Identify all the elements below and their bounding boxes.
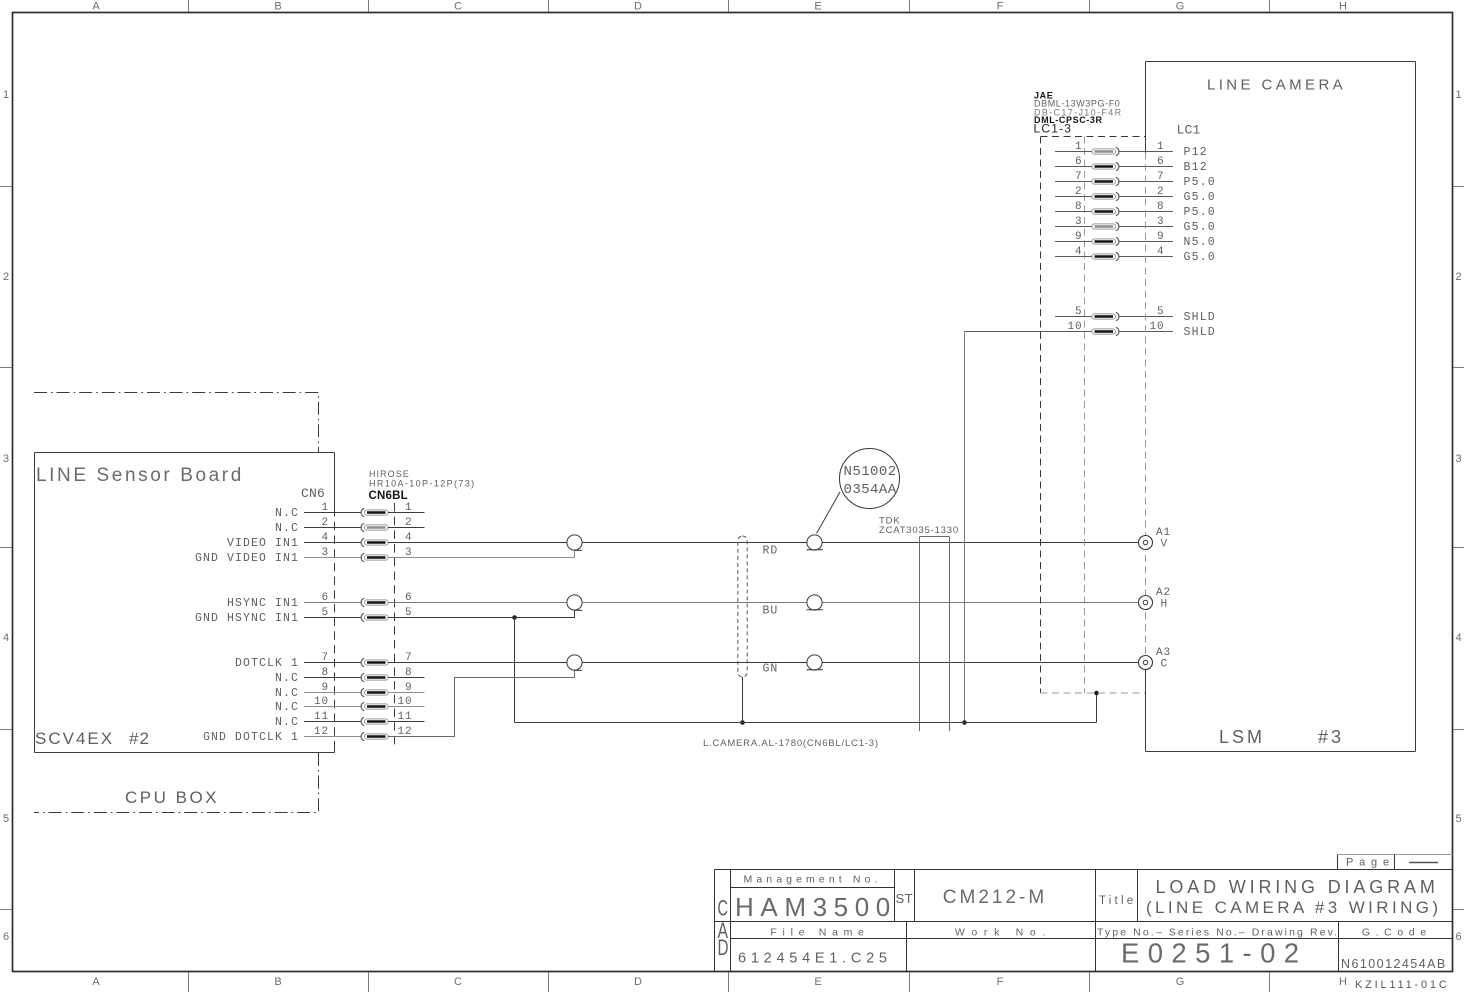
svg-text:G.Code: G.Code (1362, 927, 1432, 939)
svg-text:3: 3 (3, 453, 9, 465)
svg-text:N5.0: N5.0 (1184, 236, 1216, 249)
contact LC1 pin 9 (1092, 237, 1119, 245)
wire LC1 pin 9 stub (1055, 241, 1092, 243)
wire CN6 pin 1 (304, 512, 361, 514)
twist symbol GN right (807, 655, 823, 670)
balloon leader line (817, 492, 841, 534)
svg-text:12: 12 (314, 726, 329, 738)
svg-text:1: 1 (321, 502, 329, 514)
svg-text:2: 2 (1075, 186, 1083, 198)
svg-text:1: 1 (1075, 141, 1083, 153)
svg-text:H: H (1339, 976, 1347, 988)
wire shield common bus (515, 722, 1097, 724)
svg-text:L.CAMERA.AL-1780(CN6BL/LC1-3): L.CAMERA.AL-1780(CN6BL/LC1-3) (703, 738, 879, 749)
svg-text:Work No.: Work No. (955, 927, 1052, 939)
svg-text:C: C (454, 976, 462, 988)
svg-text:H: H (1339, 1, 1347, 13)
svg-text:612454E1.C25: 612454E1.C25 (738, 951, 892, 967)
svg-text:N610012454AB: N610012454AB (1341, 957, 1447, 971)
contact CN6BL pin 7 (361, 658, 388, 666)
svg-text:5: 5 (1075, 306, 1083, 318)
terminal A1 (1139, 536, 1153, 550)
svg-text:F: F (997, 1, 1004, 13)
contact LC1 pin 4 (1092, 252, 1119, 260)
svg-text:CM212-M: CM212-M (943, 887, 1047, 908)
page number dash (1409, 862, 1438, 864)
twist symbol RD left (567, 535, 582, 550)
wire LC1 pin 8 (1119, 211, 1173, 213)
wire LC1 pin 6 (1119, 166, 1173, 168)
terminal A3 (1139, 656, 1153, 670)
wire shield bus riser (left) (514, 618, 516, 723)
wire GN to terminal A3 (582, 662, 1138, 664)
svg-text:HIROSE: HIROSE (369, 469, 410, 479)
svg-text:LSM: LSM (1219, 727, 1265, 747)
wire pin 10 stub (388, 706, 425, 708)
svg-text:11: 11 (314, 711, 329, 723)
svg-text:P5.0: P5.0 (1184, 206, 1216, 219)
svg-text:A1: A1 (1156, 527, 1171, 539)
wire CN6 pin 10 (304, 706, 361, 708)
svg-text:VIDEO IN1: VIDEO IN1 (227, 537, 299, 550)
wire LC1 pin 5 (1119, 316, 1173, 318)
svg-text:10: 10 (314, 696, 329, 708)
svg-text:SHLD: SHLD (1184, 311, 1216, 324)
terminal A2 (1139, 596, 1153, 610)
twist symbol GN left (567, 655, 582, 670)
wire RD return pin 3 to twist circle (388, 550, 575, 557)
svg-text:G5.0: G5.0 (1184, 221, 1216, 234)
twist symbol BU right (807, 595, 823, 610)
svg-text:N.C: N.C (275, 716, 299, 729)
wire SHLD from riser to LC1 pin 10 (965, 331, 1093, 333)
wire LC1 pin 10 (1119, 331, 1173, 333)
svg-text:10: 10 (1067, 321, 1082, 333)
svg-text:N.C: N.C (275, 507, 299, 520)
svg-text:3: 3 (1075, 216, 1083, 228)
ferrite core ZCAT3035-1330 clamp (920, 537, 950, 732)
wire LC1 pin 8 stub (1055, 211, 1092, 213)
contact LC1 pin 10 (1092, 327, 1119, 335)
wire LC1 pin 5 stub (1055, 316, 1092, 318)
svg-text:H: H (1161, 599, 1169, 611)
svg-text:LINE Sensor Board: LINE Sensor Board (36, 465, 244, 486)
svg-text:N.C: N.C (275, 522, 299, 535)
wire CN6 pin 2 (304, 527, 361, 529)
svg-text:B: B (274, 976, 281, 988)
wire SHLD riser right (964, 332, 966, 723)
svg-text:BU: BU (763, 605, 779, 618)
svg-text:2: 2 (321, 517, 329, 529)
svg-text:4: 4 (3, 632, 9, 644)
svg-text:5: 5 (321, 607, 329, 619)
svg-text:A: A (92, 1, 100, 13)
svg-text:P5.0: P5.0 (1184, 176, 1216, 189)
junction dot SHLD riser (962, 720, 967, 725)
wire CN6 pin 11 (304, 721, 361, 723)
svg-text:N.C: N.C (275, 701, 299, 714)
svg-text:N51002: N51002 (844, 464, 897, 480)
svg-text:N.C: N.C (275, 672, 299, 685)
svg-text:8: 8 (321, 667, 329, 679)
wire CN6 pin 7 (304, 662, 361, 664)
svg-text:6: 6 (3, 931, 9, 943)
wire CN6 pin 5 (304, 617, 361, 619)
svg-text:GND VIDEO IN1: GND VIDEO IN1 (195, 552, 299, 565)
contact CN6BL pin 5 (361, 613, 388, 621)
connector LC1-3 shell dashed bottom (1041, 692, 1146, 694)
svg-text:C: C (454, 1, 462, 13)
junction dot connector shell (1094, 691, 1099, 696)
contact CN6BL pin 10 (361, 702, 388, 710)
svg-text:6: 6 (321, 592, 329, 604)
svg-text:G5.0: G5.0 (1184, 191, 1216, 204)
svg-text:D: D (634, 1, 642, 13)
CAD column label (718, 896, 729, 961)
wire GN signal from pin 7 to twist circle (388, 662, 567, 664)
svg-text:Title: Title (1099, 895, 1136, 907)
wire CN6 pin 4 (304, 542, 361, 544)
wire pin 1 stub (388, 512, 425, 514)
svg-text:E: E (814, 1, 821, 13)
wire shield drain (742, 677, 744, 723)
twist symbol BU left (567, 595, 582, 610)
wire LC1 pin 3 stub (1055, 226, 1092, 228)
wire pin 9 stub (388, 692, 425, 694)
svg-text:1: 1 (1455, 89, 1461, 101)
svg-text:A3: A3 (1156, 647, 1171, 659)
svg-text:HSYNC IN1: HSYNC IN1 (227, 597, 299, 610)
twist symbol RD right (807, 535, 823, 550)
contact LC1 pin 6 (1092, 162, 1119, 170)
svg-text:N.C: N.C (275, 687, 299, 700)
wire LC1 pin 6 stub (1055, 166, 1092, 168)
svg-text:LOAD WIRING DIAGRAM: LOAD WIRING DIAGRAM (1156, 877, 1439, 897)
svg-text:CN6BL: CN6BL (369, 490, 408, 502)
svg-text:D: D (634, 976, 642, 988)
wire RD signal from pin 4 to twist circle (388, 542, 567, 544)
svg-text:Management No.: Management No. (744, 874, 882, 886)
svg-text:6: 6 (1455, 931, 1461, 943)
svg-text:C: C (718, 896, 729, 921)
wire CN6 pin 9 (304, 692, 361, 694)
svg-text:(LINE CAMERA #3 WIRING): (LINE CAMERA #3 WIRING) (1146, 898, 1441, 917)
LINE CAMERA / LSM #3 box (1146, 62, 1416, 752)
junction dot GND HSYNC to shield bus (512, 615, 517, 620)
svg-text:ST: ST (896, 891, 914, 906)
svg-text:5: 5 (1455, 813, 1461, 825)
svg-text:A2: A2 (1156, 587, 1171, 599)
svg-text:SHLD: SHLD (1184, 326, 1216, 339)
wire LC1 pin 2 stub (1055, 196, 1092, 198)
wire BU to terminal A2 (582, 602, 1138, 604)
svg-text:8: 8 (1075, 201, 1083, 213)
contact CN6BL pin 1 (361, 508, 388, 516)
svg-text:2: 2 (3, 271, 9, 283)
CPU BOX enclosure dash-dot boundary (34, 393, 319, 813)
contact LC1 pin 2 (1092, 192, 1119, 200)
svg-text:CN6: CN6 (301, 486, 325, 501)
svg-text:4: 4 (1075, 246, 1083, 258)
wire LC1 pin 7 stub (1055, 181, 1092, 183)
svg-text:KZIL111-01C: KZIL111-01C (1355, 979, 1450, 991)
svg-text:G: G (1176, 976, 1185, 988)
connector LC1-3 mating dashed line (1084, 137, 1086, 694)
balloon N51002 0354AA (840, 449, 900, 509)
contact LC1 pin 7 (1092, 177, 1119, 185)
camera box edge dashed segment (1145, 153, 1147, 671)
svg-text:F: F (997, 976, 1004, 988)
svg-text:DOTCLK 1: DOTCLK 1 (235, 657, 299, 670)
wire LC1 pin 1 stub (1055, 151, 1092, 153)
svg-text:ZCAT3035-1330: ZCAT3035-1330 (879, 525, 959, 536)
svg-text:#3: #3 (1318, 727, 1344, 747)
svg-text:5: 5 (3, 813, 9, 825)
svg-text:7: 7 (321, 652, 329, 664)
contact CN6BL pin 4 (361, 538, 388, 546)
contact CN6BL pin 6 (361, 598, 388, 606)
contact LC1 pin 8 (1092, 207, 1119, 215)
svg-text:9: 9 (321, 682, 329, 694)
svg-text:2: 2 (1455, 271, 1461, 283)
svg-text:P12: P12 (1184, 146, 1208, 159)
svg-text:D: D (718, 935, 729, 960)
svg-text:B12: B12 (1184, 161, 1208, 174)
svg-text:B: B (274, 1, 281, 13)
contact LC1 pin 3 (1092, 222, 1119, 230)
wire shield to connector shell (1096, 693, 1098, 723)
svg-text:SCV4EX: SCV4EX (35, 729, 114, 748)
junction dot shield drain (740, 720, 745, 725)
wire BU signal from pin 6 to twist circle (388, 602, 567, 604)
contact CN6BL pin 11 (361, 717, 388, 725)
contact CN6BL pin 12 (361, 732, 388, 740)
svg-text:6: 6 (1075, 156, 1083, 168)
svg-text:0354AA: 0354AA (844, 482, 897, 498)
svg-text:Page: Page (1346, 857, 1395, 869)
svg-text:7: 7 (1075, 171, 1083, 183)
svg-text:GND HSYNC IN1: GND HSYNC IN1 (195, 612, 299, 625)
svg-text:LINE CAMERA: LINE CAMERA (1207, 77, 1346, 94)
svg-text:RD: RD (763, 545, 779, 558)
svg-text:HAM3500: HAM3500 (735, 892, 897, 922)
board edge dashed segment at CN6 (334, 508, 336, 744)
LINE Sensor Board box (35, 453, 335, 753)
contact LC1 pin 5 (1092, 312, 1119, 320)
wire pin 2 stub (388, 527, 425, 529)
wire LC1 pin 1 (1119, 151, 1173, 153)
svg-text:LC1-3: LC1-3 (1034, 122, 1073, 136)
title block grid (715, 870, 1453, 972)
wire CN6 pin 8 (304, 677, 361, 679)
connector CN6BL mating dashed line (394, 503, 396, 747)
svg-text:1: 1 (3, 89, 9, 101)
connector LC1-3 shell dashed box (1041, 137, 1146, 694)
wire CN6 pin 6 (304, 602, 361, 604)
contact CN6BL pin 9 (361, 688, 388, 696)
svg-text:C: C (1161, 659, 1169, 671)
wire LC1 pin 2 (1119, 196, 1173, 198)
wire pin 8 stub (388, 677, 425, 679)
svg-text:V: V (1161, 539, 1169, 551)
wire CN6 pin 12 (304, 736, 361, 738)
cable shield dashed stadium (738, 536, 747, 677)
svg-text:#2: #2 (129, 729, 150, 748)
svg-text:4: 4 (321, 532, 329, 544)
contact CN6BL pin 8 (361, 673, 388, 681)
svg-text:GN: GN (763, 663, 779, 676)
contact CN6BL pin 3 (361, 553, 388, 561)
svg-text:9: 9 (1075, 231, 1083, 243)
wire LC1 pin 4 stub (1055, 256, 1092, 258)
svg-text:3: 3 (1455, 453, 1461, 465)
contact LC1 pin 1 (1092, 147, 1119, 155)
svg-text:HR10A-10P-12P(73): HR10A-10P-12P(73) (369, 479, 476, 489)
svg-text:GND DOTCLK 1: GND DOTCLK 1 (203, 731, 299, 744)
svg-text:E: E (814, 976, 821, 988)
svg-text:G: G (1176, 1, 1185, 13)
contact CN6BL pin 2 (361, 523, 388, 531)
wire LC1 pin 7 (1119, 181, 1173, 183)
wire LC1 pin 3 (1119, 226, 1173, 228)
svg-text:4: 4 (1455, 632, 1461, 644)
svg-text:G5.0: G5.0 (1184, 251, 1216, 264)
svg-text:File Name: File Name (770, 927, 869, 939)
title block page cell (1338, 854, 1453, 856)
wire pin 11 stub (388, 721, 425, 723)
wire GN return pin 12 routed to twist circle (388, 670, 575, 736)
svg-text:E0251-02: E0251-02 (1121, 938, 1307, 969)
wire RD to terminal A1 (582, 542, 1138, 544)
wire LC1 pin 9 (1119, 241, 1173, 243)
wire CN6 pin 3 (304, 557, 361, 559)
svg-text:A: A (92, 976, 100, 988)
svg-text:LC1: LC1 (1177, 123, 1201, 138)
svg-text:CPU BOX: CPU BOX (125, 788, 219, 807)
wire LC1 pin 4 (1119, 256, 1173, 258)
svg-text:3: 3 (321, 547, 329, 559)
wire BU return pin 5 to twist circle (388, 610, 575, 617)
